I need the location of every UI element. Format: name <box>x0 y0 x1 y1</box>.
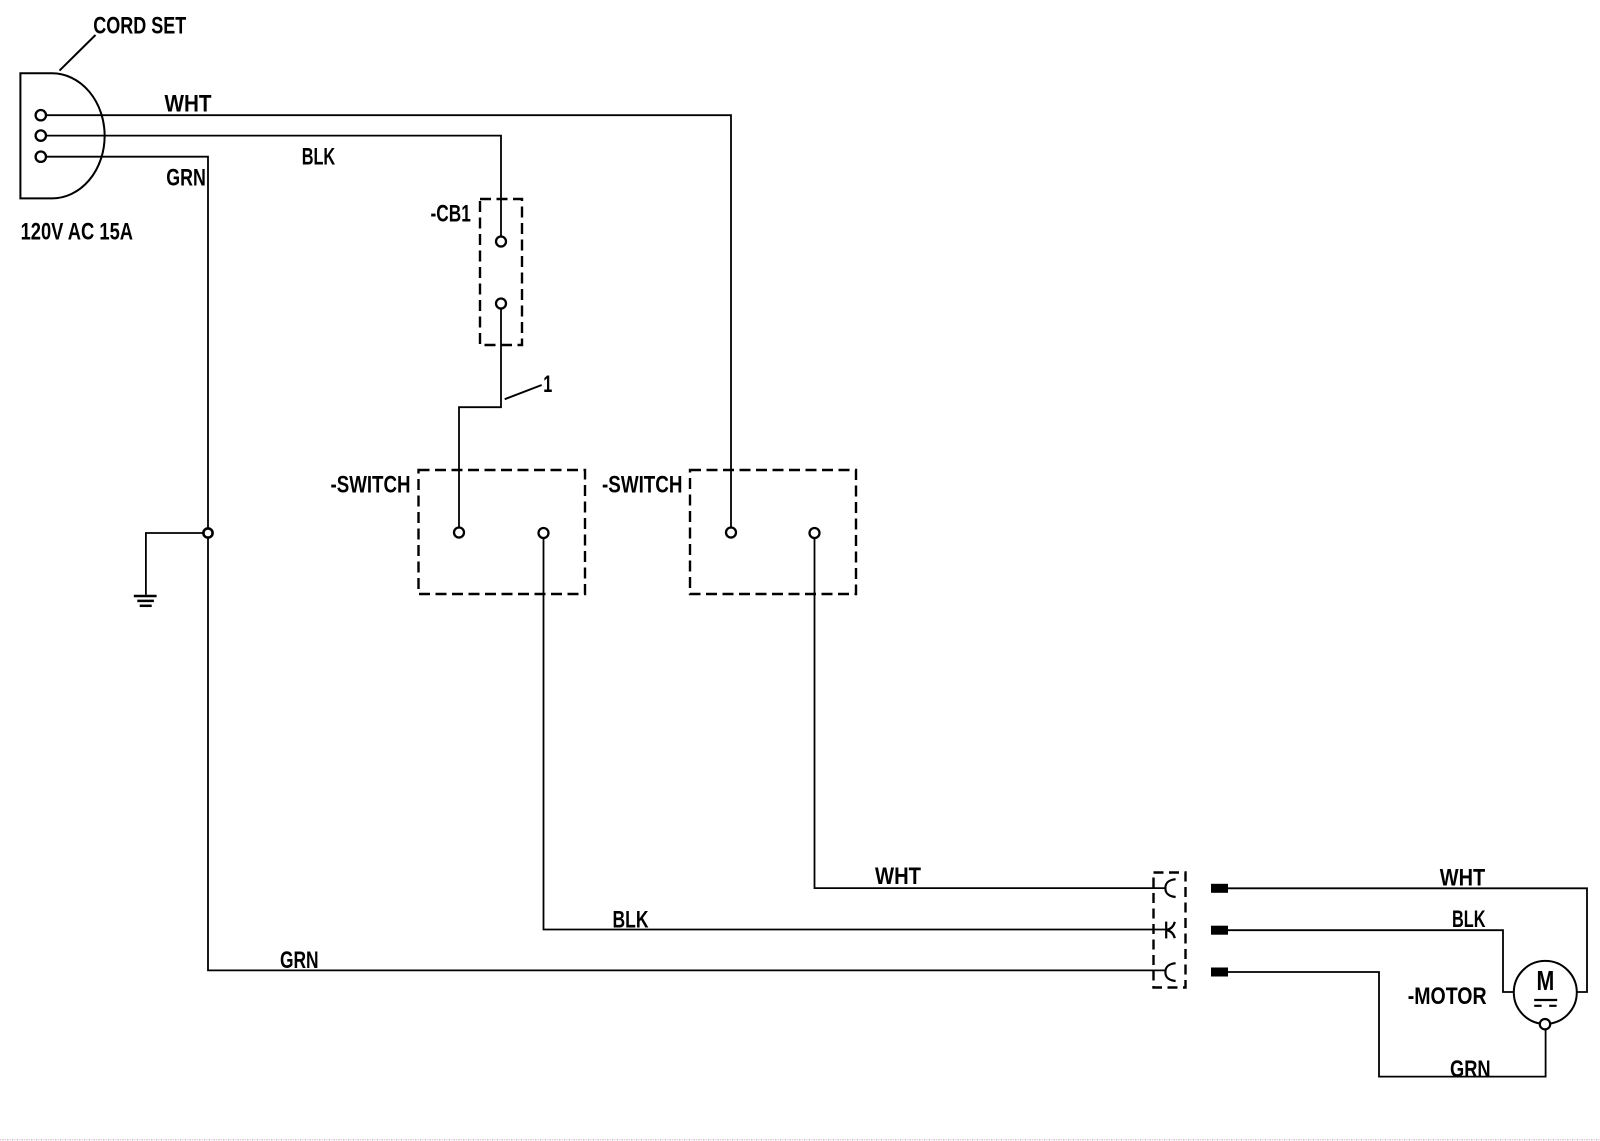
X1 male pin 3 <box>1211 968 1228 977</box>
wire WHT from pin 1 to motor right side <box>1228 888 1587 992</box>
wire BLK from pin 2 to motor left side <box>1228 930 1514 992</box>
X1 female contact 1 <box>1165 879 1175 897</box>
connector X1 dashed outline <box>1154 873 1186 988</box>
wire from junction to ground <box>146 533 203 595</box>
svg-text:GRN: GRN <box>280 947 319 974</box>
CB1 terminal 1 <box>496 237 506 247</box>
svg-text:-SWITCH: -SWITCH <box>331 472 411 499</box>
leader line from CORD SET label <box>60 35 96 71</box>
svg-text:BLK: BLK <box>302 143 336 170</box>
svg-text:BLK: BLK <box>613 906 649 933</box>
wire WHT from S2 to connector <box>815 538 1167 888</box>
S2 terminal right <box>810 528 820 538</box>
svg-text:GRN: GRN <box>166 164 206 191</box>
svg-text:120V AC 15A: 120V AC 15A <box>21 218 133 245</box>
svg-text:-SWITCH: -SWITCH <box>602 472 683 499</box>
wire BLK from S1 to connector <box>544 538 1167 930</box>
motor M1 body <box>1514 961 1577 1024</box>
leader line for label 1 <box>505 385 542 399</box>
wire from CB1 terminal 2 to switch S1 <box>459 309 501 528</box>
X1 female contact 3 <box>1165 963 1175 981</box>
svg-text:WHT: WHT <box>1440 864 1486 891</box>
cord set pin 3 (GRN) <box>36 152 46 162</box>
motor DC symbol <box>1534 1000 1557 1006</box>
svg-text:CORD SET: CORD SET <box>93 13 186 40</box>
circuit breaker CB1 dashed outline <box>480 199 522 345</box>
svg-text:-CB1: -CB1 <box>431 201 471 228</box>
wire WHT from pin 1 to switch S2 <box>46 115 731 527</box>
cord set pin 1 (WHT) <box>36 110 46 120</box>
wire BLK from pin 2 to breaker CB1 <box>46 136 501 237</box>
S1 terminal right <box>539 528 549 538</box>
cord set pin 2 (BLK) <box>36 130 46 140</box>
svg-text:BLK: BLK <box>1452 906 1486 933</box>
svg-text:M: M <box>1537 965 1555 996</box>
S1 terminal left <box>454 528 464 538</box>
switch S1 dashed outline <box>419 470 586 594</box>
CB1 terminal 2 <box>496 299 506 309</box>
svg-text:GRN: GRN <box>1450 1056 1491 1083</box>
wire GRN from pin 3 to motor ground terminal <box>1228 972 1546 1077</box>
X1 female contact 2 <box>1166 922 1175 939</box>
svg-text:WHT: WHT <box>165 91 212 118</box>
junction node on GRN wire <box>203 528 212 537</box>
ground symbol <box>134 596 157 606</box>
X1 male pin 1 <box>1211 884 1228 893</box>
switch S2 dashed outline <box>690 470 856 594</box>
svg-text:-MOTOR: -MOTOR <box>1408 983 1487 1010</box>
cord set plug body <box>20 73 104 198</box>
X1 male pin 2 <box>1211 926 1228 935</box>
motor ground terminal <box>1540 1019 1550 1029</box>
svg-text:WHT: WHT <box>875 863 921 890</box>
wire GRN from pin 3 to ground junction <box>46 157 208 528</box>
svg-text:1: 1 <box>543 371 552 398</box>
S2 terminal left <box>726 528 736 538</box>
wire GRN lower run to connector <box>208 538 1166 970</box>
